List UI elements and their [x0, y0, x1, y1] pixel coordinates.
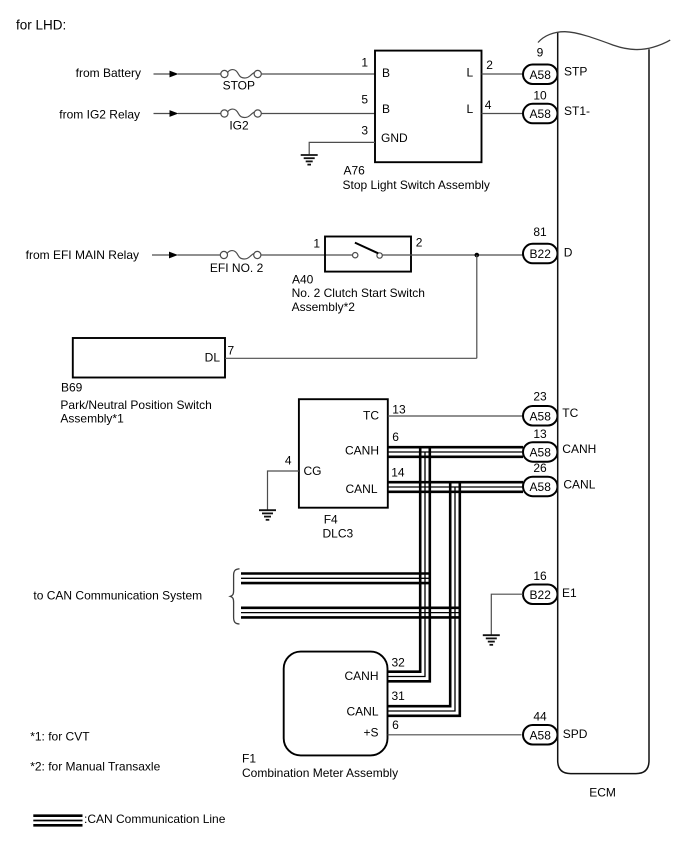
wire GND pin — [309, 142, 375, 154]
ground E1 — [483, 635, 500, 645]
wire pin4 to A58 — [482, 113, 524, 115]
svg-text:14: 14 — [391, 465, 405, 479]
svg-text:CANH: CANH — [344, 669, 378, 683]
svg-text::CAN Communication Line: :CAN Communication Line — [84, 812, 226, 826]
fuse EFI NO. 2 — [210, 251, 264, 275]
wire — [178, 73, 221, 75]
svg-text:CANH: CANH — [345, 444, 379, 458]
combination meter F1 box — [284, 652, 388, 756]
svg-text:1: 1 — [313, 237, 320, 251]
svg-text:from Battery: from Battery — [76, 66, 141, 80]
wire CG — [268, 471, 299, 510]
wire — [178, 254, 221, 256]
clutch start switch A40 box — [325, 237, 411, 272]
wire — [178, 113, 221, 115]
svg-text:STOP: STOP — [223, 79, 255, 93]
brace — [230, 569, 239, 624]
wire TC to A58 — [388, 415, 523, 417]
svg-text:7: 7 — [228, 344, 235, 358]
svg-text:A58: A58 — [530, 728, 552, 742]
svg-text:A76: A76 — [344, 164, 366, 178]
svg-text:IG2: IG2 — [229, 119, 249, 133]
fuse IG2 — [221, 109, 262, 132]
svg-text:DLC3: DLC3 — [323, 527, 354, 541]
svg-text:No. 2 Clutch Start Switch: No. 2 Clutch Start Switch — [292, 286, 425, 300]
legend CAN communication line symbol — [33, 816, 82, 826]
svg-text:CG: CG — [304, 464, 322, 478]
svg-text:2: 2 — [416, 236, 423, 250]
ground CG — [259, 510, 276, 520]
svg-text:L: L — [467, 66, 474, 80]
svg-text:from IG2 Relay: from IG2 Relay — [59, 108, 140, 122]
fuse STOP — [221, 70, 262, 93]
svg-text:B: B — [382, 102, 390, 116]
svg-text:*2: for Manual Transaxle: *2: for Manual Transaxle — [30, 760, 160, 774]
svg-text:STP: STP — [564, 65, 587, 79]
arrow from IG2 Relay — [154, 110, 179, 117]
svg-text:5: 5 — [361, 93, 368, 107]
junction dot — [475, 253, 480, 258]
connector B22 E1 — [523, 585, 558, 605]
svg-text:ST1-: ST1- — [564, 104, 590, 118]
svg-text:CANL: CANL — [563, 478, 595, 492]
svg-text:10: 10 — [533, 89, 547, 103]
svg-text:23: 23 — [533, 389, 547, 403]
svg-text:44: 44 — [533, 710, 547, 724]
arrow from EFI MAIN Relay — [152, 252, 178, 259]
svg-text:CANL: CANL — [346, 704, 378, 718]
CAN bus CANH vertical to meter — [388, 448, 430, 681]
DLC3 F4 box — [299, 399, 388, 508]
svg-text:4: 4 — [485, 98, 492, 112]
svg-text:Combination Meter Assembly: Combination Meter Assembly — [242, 766, 398, 780]
svg-text:for LHD:: for LHD: — [16, 18, 66, 33]
svg-text:B22: B22 — [530, 247, 552, 261]
svg-text:A58: A58 — [530, 446, 552, 460]
svg-text:Assembly*1: Assembly*1 — [60, 412, 124, 426]
svg-text:F4: F4 — [324, 513, 338, 527]
svg-text:31: 31 — [392, 689, 406, 703]
svg-text:B22: B22 — [530, 588, 552, 602]
svg-text:CANH: CANH — [562, 442, 596, 456]
svg-text:DL: DL — [205, 351, 221, 365]
svg-text:+S: +S — [363, 726, 378, 740]
wire DL — [225, 357, 477, 359]
svg-text:Park/Neutral Position Switch: Park/Neutral Position Switch — [60, 398, 211, 412]
CAN line DLC3 CANH to A58 — [388, 447, 523, 457]
ECM torn top wave — [538, 32, 670, 50]
svg-text:26: 26 — [533, 461, 547, 475]
wire E1 to ground — [491, 594, 523, 634]
wire pin2 to A58 — [482, 73, 524, 75]
svg-text:13: 13 — [392, 403, 406, 417]
svg-text:to CAN Communication System: to CAN Communication System — [33, 589, 202, 603]
svg-text:A58: A58 — [530, 107, 552, 121]
wire — [382, 254, 523, 256]
connector A58 ST1- — [523, 104, 558, 124]
connector A58 STP — [523, 65, 558, 85]
wire — [261, 254, 353, 256]
svg-text:TC: TC — [562, 406, 578, 420]
wire junction down — [476, 255, 478, 358]
connector A58 SPD — [523, 725, 558, 745]
svg-text:2: 2 — [486, 58, 493, 72]
stop light switch A76 box — [375, 51, 482, 163]
svg-text:A40: A40 — [292, 272, 314, 286]
svg-text:13: 13 — [533, 427, 547, 441]
wire — [261, 73, 375, 75]
svg-text:L: L — [467, 102, 474, 116]
connector A58 CANL — [523, 477, 558, 497]
CAN line to CAN system upper — [241, 574, 430, 584]
svg-text:EFI NO. 2: EFI NO. 2 — [210, 261, 264, 275]
svg-text:A58: A58 — [530, 68, 552, 82]
arrow from Battery — [154, 71, 179, 78]
svg-text:3: 3 — [361, 123, 368, 137]
svg-text:GND: GND — [381, 131, 408, 145]
park/neutral switch B69 box — [73, 338, 225, 378]
connector B22 D — [523, 244, 558, 263]
wire — [261, 113, 375, 115]
svg-text:16: 16 — [533, 569, 547, 583]
ECM box — [558, 32, 649, 773]
svg-text:6: 6 — [392, 718, 399, 732]
svg-text:D: D — [564, 246, 573, 260]
svg-text:CANL: CANL — [345, 482, 377, 496]
connector A58 CANH — [523, 442, 558, 462]
svg-text:6: 6 — [392, 430, 399, 444]
svg-text:A58: A58 — [530, 409, 552, 423]
svg-text:ECM: ECM — [589, 786, 616, 800]
CAN line DLC3 CANL to A58 — [388, 482, 523, 492]
svg-text:TC: TC — [363, 408, 379, 422]
CAN line to CAN system lower — [241, 608, 460, 618]
svg-text:Assembly*2: Assembly*2 — [292, 300, 356, 314]
svg-text:9: 9 — [537, 46, 544, 60]
svg-text:*1: for CVT: *1: for CVT — [30, 729, 90, 743]
CAN bus CANL vertical to meter — [388, 483, 460, 716]
svg-text:A58: A58 — [530, 480, 552, 494]
svg-text:B69: B69 — [61, 381, 83, 395]
svg-text:4: 4 — [285, 454, 292, 468]
connector A58 TC — [523, 406, 558, 426]
svg-text:Stop Light Switch Assembly: Stop Light Switch Assembly — [343, 178, 490, 192]
svg-text:E1: E1 — [562, 586, 577, 600]
svg-text:B: B — [382, 66, 390, 80]
svg-text:81: 81 — [533, 225, 547, 239]
svg-text:SPD: SPD — [563, 727, 588, 741]
svg-text:F1: F1 — [242, 752, 256, 766]
svg-text:from EFI MAIN Relay: from EFI MAIN Relay — [26, 248, 139, 262]
switch contacts A40 — [353, 243, 383, 259]
wire +S to A58 — [388, 734, 522, 736]
ground A76 — [301, 155, 318, 165]
svg-text:1: 1 — [361, 55, 368, 69]
svg-text:32: 32 — [392, 656, 406, 670]
